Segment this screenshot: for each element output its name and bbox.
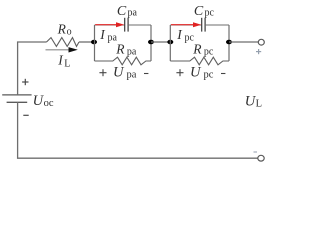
negative output terminal	[258, 155, 264, 161]
current arrow IL	[46, 47, 78, 52]
svg-text:Upc: Upc	[190, 65, 214, 81]
svg-text:Ipc: Ipc	[176, 27, 194, 43]
svg-text:Ipa: Ipa	[99, 27, 117, 43]
label terminal plus	[256, 49, 261, 54]
svg-text:Uoc: Uoc	[33, 93, 54, 109]
svg-text:Ro: Ro	[57, 21, 72, 37]
svg-text:IL: IL	[57, 53, 70, 70]
wire rect2 left vertical	[169, 25, 171, 61]
resistor Rpc	[170, 57, 229, 65]
wire rect1 left vertical	[94, 25, 96, 61]
label Upa voltage	[99, 65, 148, 81]
wire Ro to node A	[79, 41, 95, 43]
resistor Rpa	[95, 57, 152, 65]
resistor Ro	[47, 38, 80, 47]
svg-text:Rpa: Rpa	[115, 41, 137, 57]
wire between RC sections	[151, 41, 170, 43]
wire left vertical and top run to Ro	[18, 42, 47, 95]
capacitor Cpc	[170, 18, 229, 32]
svg-text:UL: UL	[245, 93, 262, 109]
positive output terminal	[258, 39, 264, 45]
svg-text:Rpc: Rpc	[192, 41, 214, 57]
label battery minus	[23, 114, 28, 116]
wire rect2 right vertical	[228, 25, 230, 61]
label battery plus	[22, 79, 28, 85]
node D junction dot	[226, 40, 232, 45]
node C junction dot	[167, 40, 173, 45]
label Upc voltage	[176, 65, 225, 81]
svg-text:Cpa: Cpa	[117, 4, 138, 19]
label terminal minus	[254, 151, 258, 153]
node B junction dot	[148, 40, 154, 45]
wire rect1 right vertical	[150, 25, 152, 61]
wire node D to positive terminal	[229, 41, 258, 43]
node A junction dot	[91, 40, 97, 45]
capacitor Cpa	[95, 18, 152, 32]
voltage source Uoc (battery plates)	[2, 95, 31, 102]
current arrow Ipc (red)	[171, 22, 201, 27]
current arrow Ipa (red)	[95, 22, 124, 27]
svg-text:Cpc: Cpc	[194, 4, 215, 19]
wire bottom return	[18, 102, 258, 158]
svg-text:Upa: Upa	[113, 65, 137, 81]
